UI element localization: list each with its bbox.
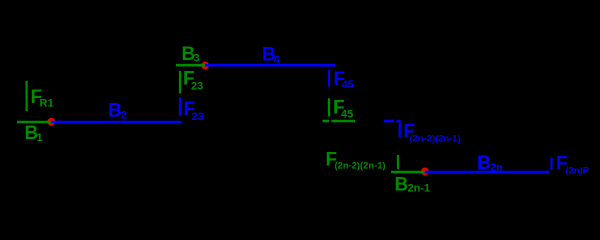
svg-text:B: B — [477, 153, 491, 174]
label F_(2n-2)(2n-1) green — [326, 150, 386, 171]
label F_R1 — [31, 87, 54, 110]
label F_23 blue — [184, 99, 204, 123]
node: red pivot dot 3 (B2n-1/B2n junction) — [421, 168, 429, 176]
block B4 (blue plank line) — [205, 64, 335, 67]
force tick F_45 on B5 (green, from B4) — [328, 98, 330, 116]
svg-text:(2n-2)(2n-1): (2n-2)(2n-1) — [335, 160, 386, 171]
svg-text:R1: R1 — [40, 98, 54, 110]
svg-text:2: 2 — [121, 110, 127, 122]
block B3 (green plank line) — [176, 64, 205, 67]
block B(2n-2) (blue dashed continuation) — [384, 120, 394, 123]
block B5 (green plank line, partial) — [323, 120, 330, 123]
block B2n (blue plank line) — [425, 171, 549, 174]
svg-text:45: 45 — [341, 108, 353, 120]
svg-text:(2n-2)(2n-1): (2n-2)(2n-1) — [410, 133, 461, 144]
label F_45 green — [333, 98, 353, 121]
label F_(2n)P blue — [556, 154, 589, 176]
force tick F_(2n)P on B2n (blue) — [550, 158, 552, 170]
label B3 — [182, 44, 200, 65]
node: red pivot dot 2 (B3/B4 junction) — [201, 62, 209, 70]
svg-text:3: 3 — [194, 53, 200, 65]
svg-text:23: 23 — [192, 111, 204, 123]
svg-text:23: 23 — [191, 80, 203, 92]
block B(2n-1) (green plank line) — [391, 171, 425, 174]
svg-text:2n-1: 2n-1 — [408, 183, 431, 195]
svg-text:4: 4 — [274, 54, 281, 66]
force tick F_23 on B3 (green, from B2) — [179, 71, 181, 94]
label F_(2n-2)(2n-1) blue — [404, 122, 461, 144]
force line F_R1 on block B1 — [26, 81, 28, 111]
label B2 — [108, 101, 127, 122]
svg-text:(2n)P: (2n)P — [566, 165, 589, 176]
label B(2n-1) — [395, 175, 431, 196]
label F_23 green — [183, 69, 203, 93]
svg-text:1: 1 — [37, 132, 43, 144]
svg-text:2n: 2n — [490, 162, 503, 174]
label B1 — [25, 123, 43, 144]
force tick F_(2n-2)(2n-1) on B(2n-1) (green) — [397, 155, 399, 169]
svg-text:B: B — [395, 175, 409, 196]
force tick F_45 on B4 (blue, reaction from B5) — [328, 70, 330, 87]
force tick F_(2n-2)(2n-1) on B(2n-2) (blue) — [399, 123, 401, 138]
label B2n — [477, 153, 503, 174]
label F_45 blue — [334, 69, 354, 91]
label B4 — [262, 45, 281, 67]
block B1 (green plank line) — [17, 121, 51, 124]
svg-text:45: 45 — [342, 79, 354, 91]
force tick F_23 on B2 (blue, reaction from B3) — [179, 97, 181, 116]
node: red pivot dot 1 (B1/B2 junction) — [47, 118, 55, 126]
block B2 (blue plank line) — [51, 121, 181, 124]
svg-text:B: B — [108, 101, 122, 122]
